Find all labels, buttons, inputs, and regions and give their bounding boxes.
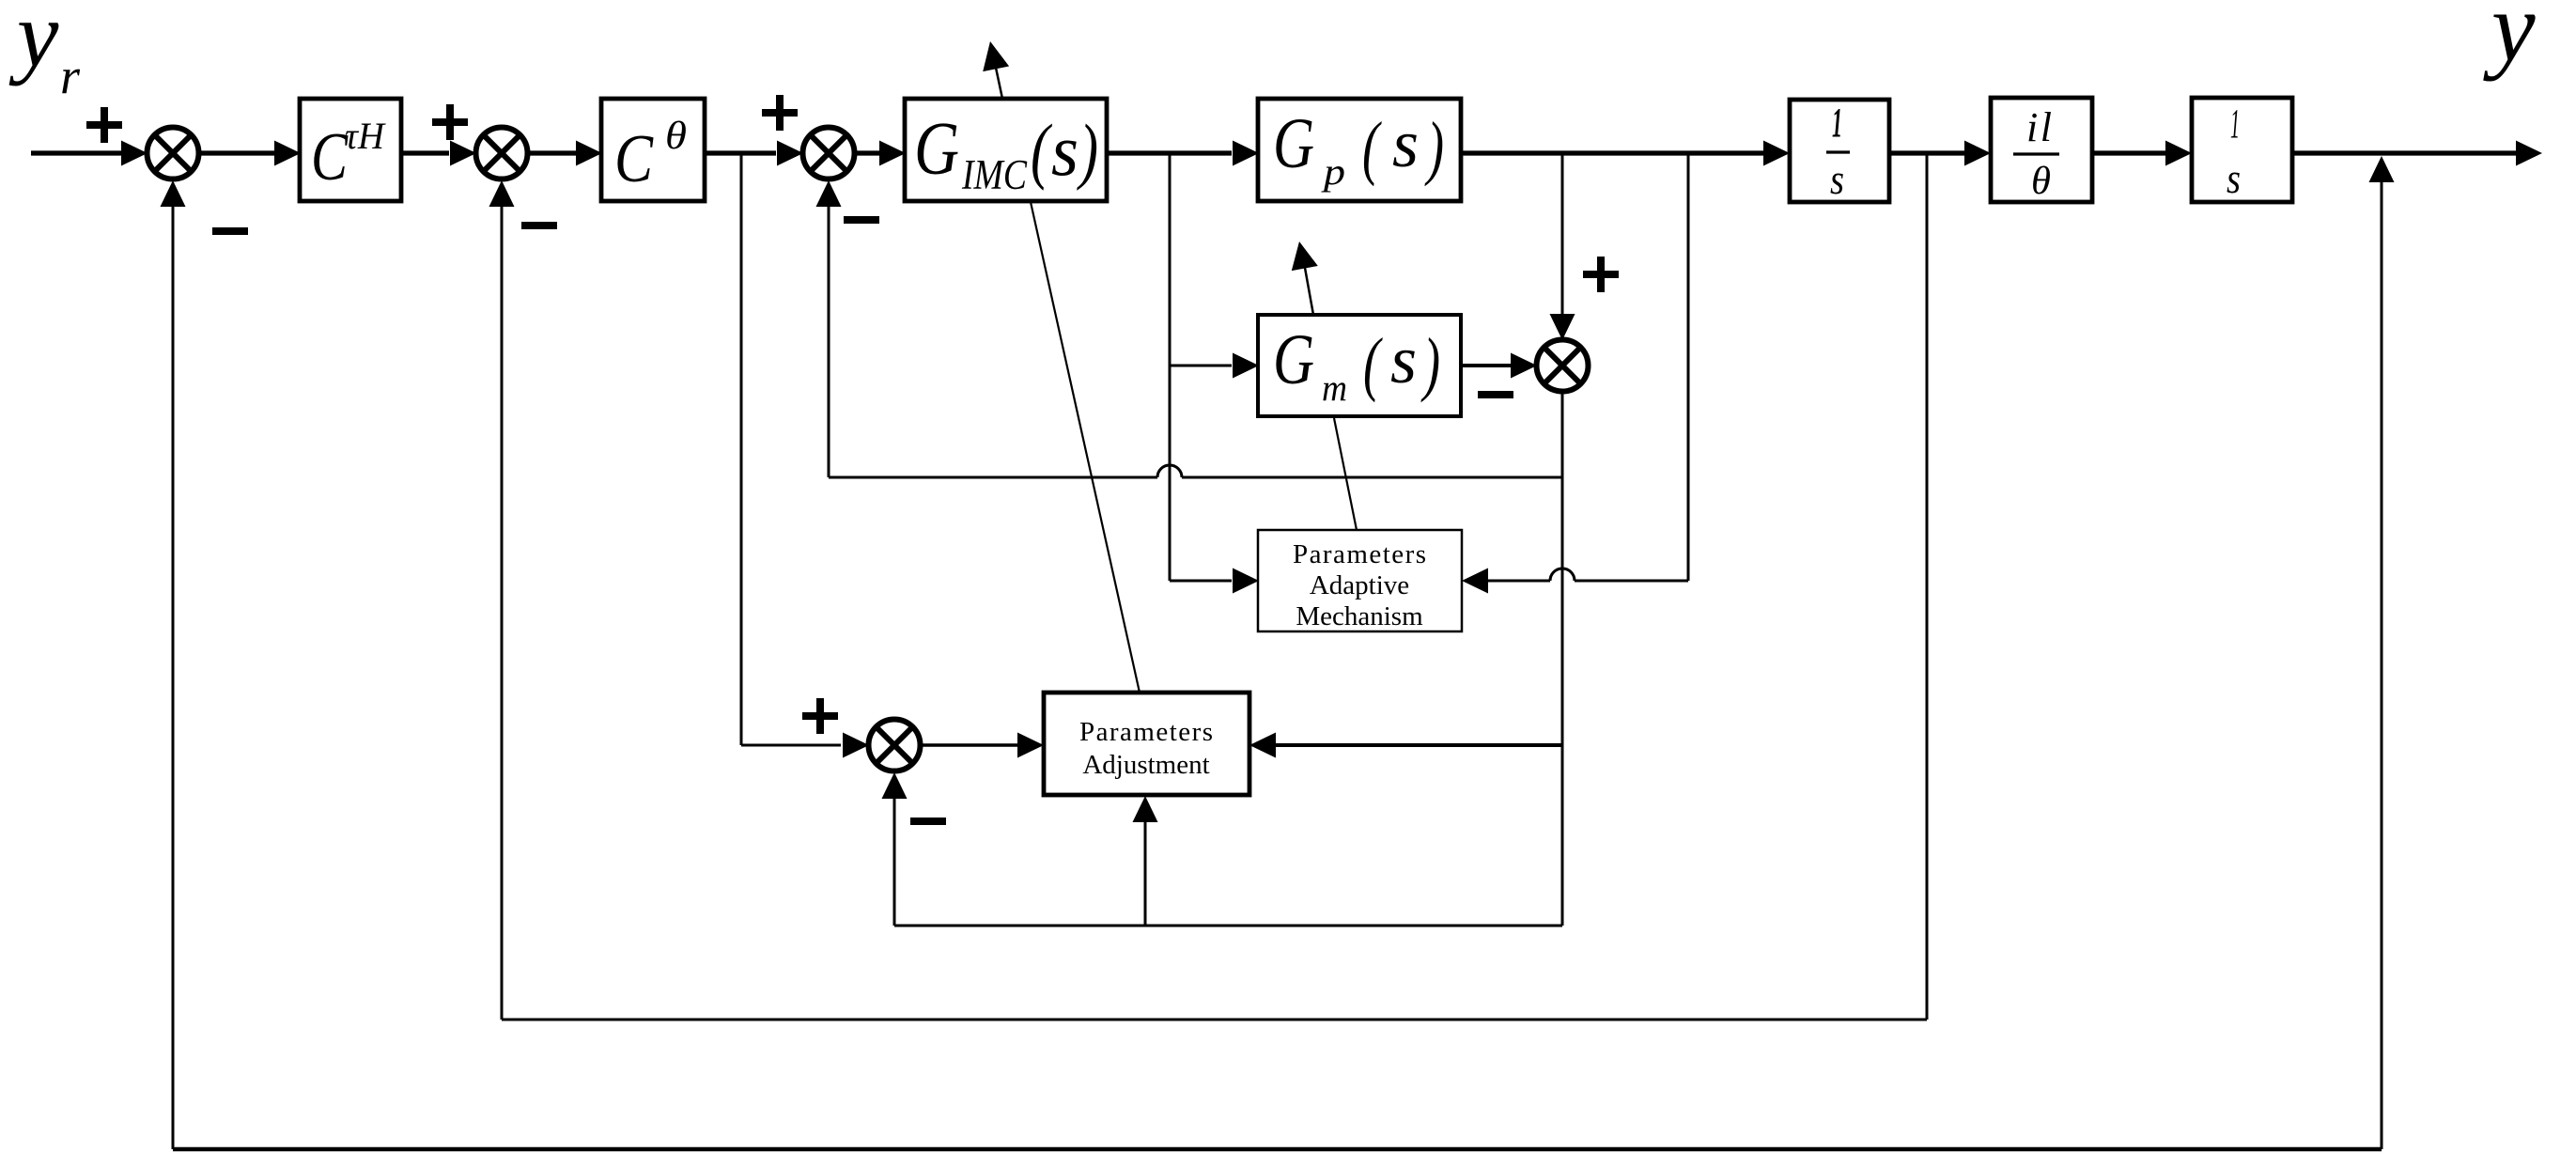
wire error tap y=793 into Parameters Adjustment right input bbox=[1249, 733, 1562, 758]
feedback wire y=1085 to S2 bbox=[502, 1019, 1927, 1021]
diagonal link PAM to G_m bbox=[1334, 418, 1357, 530]
svg-text:(: ( bbox=[1031, 109, 1052, 191]
wire branch x=1663 from main line down into S5 bbox=[1550, 153, 1575, 340]
svg-text:s: s bbox=[1830, 156, 1844, 203]
node y output label bbox=[2483, 0, 2536, 82]
svg-text:IMC: IMC bbox=[961, 151, 1028, 198]
wire branch x=1797 down to PAM right input (hop at x=1663) bbox=[1462, 153, 1688, 594]
summing junction S2 bbox=[476, 128, 528, 179]
feedback loop tap x=2051 down to y=1085 bbox=[1926, 153, 1929, 1020]
block C^theta controller bbox=[601, 99, 705, 201]
svg-text:θ: θ bbox=[665, 115, 687, 158]
svg-text:s: s bbox=[1390, 322, 1417, 397]
wire up into S4 minus input bbox=[882, 772, 908, 926]
svg-text:): ) bbox=[1077, 109, 1098, 191]
minus sign at S2 bbox=[521, 222, 557, 229]
block G_p(s) plant bbox=[1258, 99, 1461, 201]
svg-text:r: r bbox=[60, 48, 81, 104]
svg-text:y: y bbox=[8, 0, 59, 86]
wire output y with takeoff node at x=2535 bbox=[2292, 141, 2542, 166]
svg-text:m: m bbox=[1322, 366, 1347, 409]
svg-text:s: s bbox=[1051, 109, 1079, 191]
wire H/theta to block 1/s(2) bbox=[2092, 141, 2192, 166]
block Parameters Adaptive Mechanism bbox=[1258, 530, 1462, 631]
svg-text:y: y bbox=[2483, 0, 2536, 82]
svg-text:s: s bbox=[1392, 106, 1419, 181]
plus sign at S5 bbox=[1583, 257, 1619, 292]
block H/theta gain bbox=[1991, 98, 2092, 203]
svg-text:τH: τH bbox=[345, 115, 386, 157]
minus sign at S5 bbox=[1478, 391, 1513, 398]
arrow up from G_m top toward G_p bbox=[1292, 241, 1318, 315]
svg-text:G: G bbox=[1273, 320, 1314, 399]
wire S3 to block G_IMC bbox=[854, 141, 906, 166]
wire up into S1 minus input bbox=[161, 180, 186, 1149]
wire model-error feedback y=508 to S3 (hop at x=1245) bbox=[829, 465, 1562, 477]
wire 1/s to block H/theta with branch node at x=2051 bbox=[1889, 141, 1991, 166]
outer feedback wire y=1223 to S1 bbox=[173, 1147, 2382, 1152]
svg-text:G: G bbox=[1273, 104, 1314, 183]
svg-text:C: C bbox=[311, 118, 349, 195]
wire branch to G_m input bbox=[1170, 353, 1259, 379]
wire G_p to block 1/s with branch nodes at x=1663 and x=1797 bbox=[1461, 141, 1790, 166]
svg-text:): ) bbox=[1424, 108, 1444, 187]
feedback loop tap x=2535 down to y=1223 bbox=[2381, 179, 2383, 1149]
summing junction S3 bbox=[803, 128, 855, 179]
plus sign at S4 bbox=[802, 698, 838, 734]
wire G_IMC to block G_p with branch node at x=1245 bbox=[1107, 141, 1259, 166]
svg-text:C: C bbox=[614, 120, 654, 196]
wire G_m output to summing junction S5 bbox=[1461, 353, 1537, 379]
wire up into S3 minus input bbox=[816, 180, 842, 477]
svg-text:Adaptive: Adaptive bbox=[1310, 570, 1409, 600]
svg-text:1: 1 bbox=[2230, 101, 2240, 147]
wire S1 to block C^tH bbox=[199, 141, 301, 166]
svg-text:Parameters: Parameters bbox=[1079, 717, 1213, 747]
svg-text:s: s bbox=[2227, 155, 2241, 202]
wire up into Parameters Adjustment bottom input bbox=[1133, 796, 1158, 926]
wire branch x=789 down and right into S4 bbox=[741, 153, 869, 758]
wire up into S2 minus input bbox=[489, 180, 515, 1020]
wire input to summing junction S1 bbox=[31, 141, 147, 166]
summing junction S5 model error bbox=[1537, 340, 1589, 392]
wire branch x=1245 down to PAM left input bbox=[1170, 153, 1259, 594]
plus sign at S3 bbox=[762, 95, 798, 131]
svg-text:Parameters: Parameters bbox=[1293, 539, 1426, 569]
block Parameters Adjustment bbox=[1044, 693, 1249, 795]
block 1/s integrator bbox=[1790, 100, 1889, 203]
minus sign at S4 bbox=[910, 818, 946, 825]
wire S2 to block C^theta bbox=[527, 141, 602, 166]
wire C^theta to summing junction S3 with branch node at x=789 bbox=[705, 141, 803, 166]
minus sign at S1 bbox=[212, 227, 248, 235]
wire C^tH to summing junction S2 bbox=[401, 141, 476, 166]
svg-text:p: p bbox=[1321, 150, 1345, 193]
plus sign at S1 bbox=[86, 107, 122, 143]
block G_m(s) internal model bbox=[1258, 315, 1461, 416]
arrow up from G_IMC top bbox=[983, 41, 1009, 99]
svg-text:): ) bbox=[1420, 324, 1440, 403]
diagonal link Parameters Adjustment to G_IMC bbox=[1031, 202, 1140, 693]
block 1/s second integrator bbox=[2192, 98, 2292, 202]
svg-text:θ: θ bbox=[2031, 160, 2051, 203]
svg-text:Mechanism: Mechanism bbox=[1296, 601, 1423, 631]
output takeoff arrow at x=2535 bbox=[2369, 156, 2395, 182]
wire S4 to Parameters Adjustment bbox=[921, 733, 1044, 758]
node y_r input label bbox=[8, 0, 81, 104]
block C^tH controller bbox=[300, 99, 401, 201]
svg-text:Adjustment: Adjustment bbox=[1082, 750, 1209, 780]
summing junction S1 bbox=[147, 128, 199, 179]
minus sign at S3 bbox=[844, 216, 879, 224]
block G_IMC(s) internal model controller bbox=[905, 99, 1107, 201]
wire bottom feedback y=985 bbox=[894, 925, 1562, 927]
plus sign at S2 bbox=[432, 104, 468, 140]
wire S5 output down to feedback taps bbox=[1561, 392, 1564, 926]
svg-text:1: 1 bbox=[1832, 100, 1842, 146]
svg-text:G: G bbox=[914, 108, 959, 191]
summing junction S4 bbox=[869, 720, 921, 771]
